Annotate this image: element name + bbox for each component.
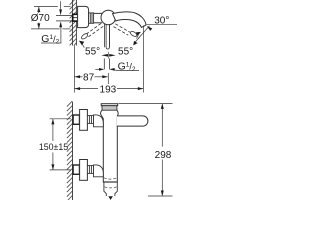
dimension Ø70 extension lines: [34, 6, 58, 8]
svg-text:G1/2: G1/2: [41, 34, 59, 46]
spout (top view): [113, 12, 146, 27]
top S-union: nut: [87, 116, 93, 124]
top S-union: elbow to body: [94, 115, 104, 127]
wall (front view): [67, 101, 73, 201]
dimension 150±15: [39, 119, 68, 170]
bottom S-union: nut: [87, 166, 93, 174]
swivel arc with arrowheads: [82, 43, 85, 48]
extension line spout tip: [142, 26, 144, 93]
G 1/2 supply pipe behind wall: [56, 15, 72, 17]
hidden edge dashed arc (mousseur): [104, 187, 116, 188]
dimension 87: [75, 72, 108, 83]
298 top extension line: [119, 103, 173, 105]
dimension 193: [75, 84, 144, 95]
wall union nut: [73, 14, 78, 21]
body (front view): [100, 110, 118, 182]
lever cap circle (top view): [101, 10, 116, 25]
svg-text:193: 193: [100, 84, 117, 95]
label G 1/2 (middle) with leader arrows: [95, 61, 139, 73]
svg-text:55°: 55°: [118, 46, 133, 57]
top S-union: collar: [73, 115, 79, 124]
escutcheon (top view): [78, 6, 89, 27]
extension line wall (dims 87/193): [73, 46, 75, 93]
extension line lever axis: [107, 73, 109, 84]
top S-union: escutcheon flange: [80, 110, 88, 131]
svg-text:G1/2: G1/2: [118, 61, 136, 73]
wall (top view) hatched band: [70, 0, 77, 46]
lever handle (front view): [117, 116, 148, 126]
label G 1/2 (top-left) with leader: [41, 27, 61, 46]
svg-text:55°: 55°: [85, 46, 100, 57]
body cap (front view): [101, 104, 118, 111]
bottom S-union: collar: [73, 165, 79, 174]
bottom S-union: escutcheon flange: [80, 160, 88, 181]
lever end ellipse 55° left: [81, 33, 89, 40]
lever end ellipse 55° right: [130, 30, 138, 37]
30° angle annotation: [133, 15, 177, 45]
bottom S-union: elbow to body: [94, 165, 104, 177]
pipe thread callout arrows: [59, 1, 62, 27]
dashed lever position 55° left: [86, 24, 103, 38]
body tube (top view): [94, 12, 102, 14]
dimension 150±15 extension lines: [50, 118, 72, 120]
dimension Ø70 arrows: [37, 7, 40, 29]
svg-text:Ø70: Ø70: [31, 13, 50, 24]
svg-text:30°: 30°: [154, 15, 169, 26]
hidden edge dashed arc (body bottom): [104, 178, 118, 179]
svg-text:298: 298: [155, 150, 172, 161]
svg-text:150±15: 150±15: [39, 142, 68, 152]
svg-text:87: 87: [83, 72, 95, 83]
connection nut (top view): [89, 13, 94, 23]
dashed lever position 55° right: [114, 24, 131, 35]
lever handle pointing down (top view): [101, 24, 116, 59]
mousseur cup: [104, 182, 117, 196]
298 bottom extension line: [148, 195, 173, 197]
lever axis extension lines below tip: [103, 59, 105, 70]
dimension 298: [155, 103, 172, 196]
body/outlet joint line: [103, 181, 118, 183]
water direction arrow: [108, 196, 113, 200]
